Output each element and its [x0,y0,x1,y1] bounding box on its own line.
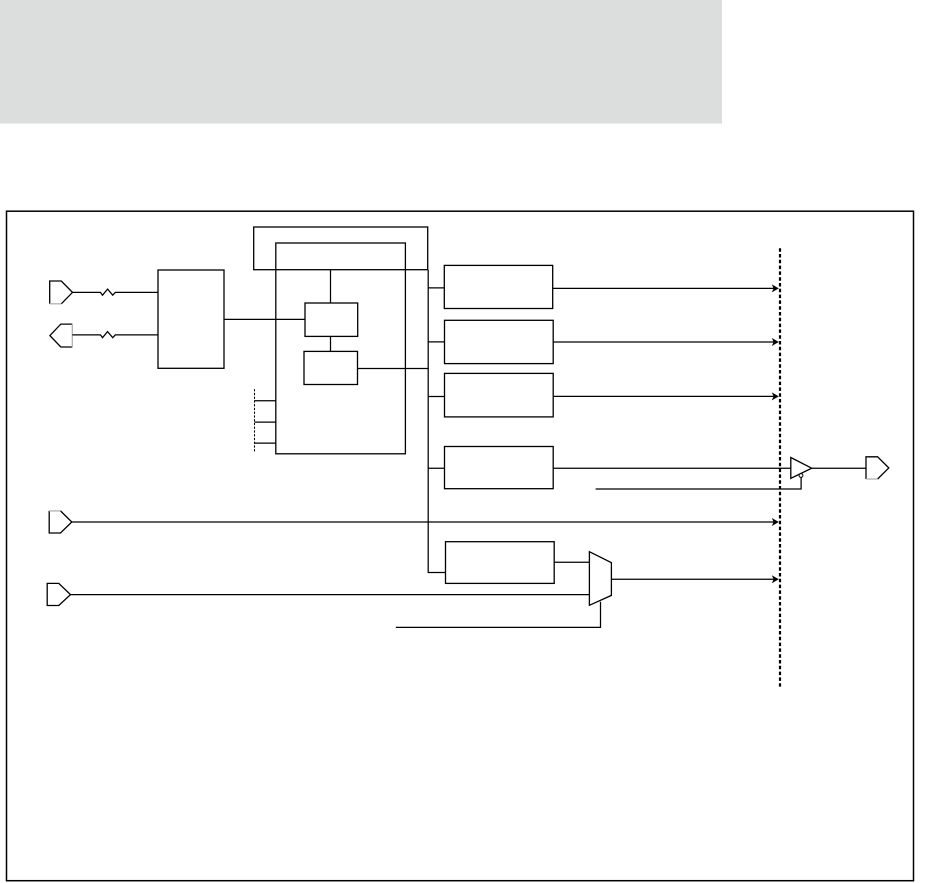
wire T to R1 [330,270,332,303]
wire buffer to P5 [812,467,866,469]
wire B5 output to mux [554,561,589,563]
wire mux output [611,578,774,580]
mux select wire [396,602,601,628]
figure border frame [7,211,914,881]
bus stub to B2 [428,341,444,343]
wire P3 long line [72,521,774,523]
divider block B4 [445,447,554,489]
block R1 (phase detector) [305,303,358,336]
divider block B1 [444,265,552,308]
wire P4 to mux [71,594,590,596]
bus vertical line [428,270,445,573]
wire B1 output [553,287,774,289]
dashed output bus line [779,248,781,686]
header band [0,0,722,124]
arrowhead mux output [772,575,779,583]
output buffer U1 [791,458,812,479]
tick wire 2 [255,421,276,423]
wire P1 to A with zigzag [73,289,159,295]
input port pentagon P1 [50,281,73,304]
arrowhead P3 wire [772,518,779,526]
block R2 (VCO) [304,351,358,384]
bus stub to B4 [428,467,444,469]
input port pentagon P4 [47,583,70,605]
wire A to R1 [224,318,305,320]
wire B4 output to buffer [553,467,791,469]
input stage block A [158,270,224,368]
bus stub to B1 [428,287,444,289]
divider block B3 [445,373,554,417]
control block T (top) [254,227,428,270]
wire R1 to R2 [330,336,332,351]
dotted line left of M [254,389,256,453]
wire R2 to bus [358,368,429,370]
input port pentagon P3 [49,511,72,533]
bus stub to B3 [428,396,444,398]
PLL core block M [276,243,406,454]
arrowhead B3 [772,392,779,400]
wire B3 output [553,395,774,397]
arrowhead B1 [772,284,779,292]
buffer enable bubble [799,474,803,478]
output port pentagon P5 [866,457,889,479]
divider block B5 [446,542,555,584]
tick wire 1 [255,400,276,402]
output port pentagon P2 [50,324,72,347]
arrowhead B2 [772,338,779,346]
divider block B2 [445,320,554,363]
wire P2 to A with zigzag [72,332,158,338]
tick wire 3 [255,442,276,444]
wire B2 output [553,341,774,343]
buffer enable wire [596,478,802,490]
mux [589,552,611,606]
